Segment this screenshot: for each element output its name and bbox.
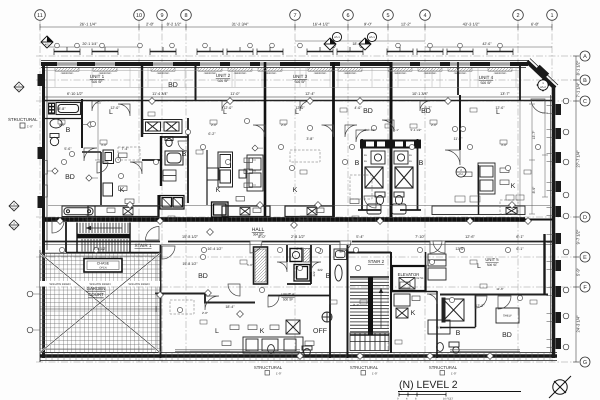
svg-text:+WINDOW+: +WINDOW+	[233, 72, 247, 75]
top exterior wall	[41, 61, 529, 68]
svg-text:UNIT 6: UNIT 6	[281, 292, 295, 297]
svg-text:307: 307	[12, 227, 17, 230]
unit5 bottom counter	[432, 206, 525, 215]
svg-text:W/FLOW DRAIN: W/FLOW DRAIN	[129, 282, 150, 286]
svg-text:E: E	[583, 255, 587, 261]
right grid bubbles	[580, 51, 590, 367]
svg-text:6'-8": 6'-8"	[531, 22, 540, 27]
svg-text:UNIT 2: UNIT 2	[216, 73, 231, 78]
room dimension texts	[58, 106, 524, 309]
svg-text:OFF: OFF	[313, 328, 327, 335]
svg-text:B: B	[583, 78, 587, 84]
scattered tag boxes	[58, 108, 537, 344]
svg-text:W2: W2	[17, 89, 21, 92]
unit2/3 kitchen cluster	[247, 155, 263, 191]
svg-text:6'-2": 6'-2"	[208, 132, 216, 136]
svg-text:OPEN: OPEN	[99, 267, 106, 270]
svg-text:62 SF: 62 SF	[416, 276, 424, 280]
lower room labels	[198, 263, 512, 339]
svg-text:5: 5	[386, 13, 389, 19]
unit1 BD bathtub bottom	[62, 206, 95, 217]
unit2 laundry dark boxes	[160, 196, 184, 210]
svg-text:L: L	[295, 109, 299, 116]
unit3 kitchen boxes	[207, 168, 246, 180]
svg-text:6'-1": 6'-1"	[516, 235, 524, 239]
svg-text:+WINDOW+: +WINDOW+	[98, 72, 112, 75]
left wall window rects	[44, 161, 47, 198]
unit2 bath block	[142, 118, 188, 203]
secondary dimension line top-left	[45, 41, 552, 47]
bottom window sills	[175, 350, 520, 352]
top-right diagonal corner wall	[527, 59, 558, 89]
unit5 toilet + sink	[437, 342, 460, 353]
svg-text:6: 6	[346, 13, 349, 19]
svg-text:9'-0 1/2": 9'-0 1/2"	[365, 128, 376, 132]
hall bottom wall	[45, 241, 553, 243]
svg-text:+WINDOW+: +WINDOW+	[453, 72, 467, 75]
top diamond callouts	[41, 36, 549, 91]
svg-text:1'-0": 1'-0"	[27, 125, 33, 129]
svg-text:STRUCTURAL: STRUCTURAL	[350, 365, 379, 370]
svg-text:G: G	[583, 360, 587, 366]
unit3 diamond tag	[252, 145, 258, 151]
unit2/3 divider wall	[264, 62, 267, 217]
double bath lower vanities	[367, 204, 406, 214]
svg-text:+WINDOW+: +WINDOW+	[156, 72, 170, 75]
unit3 dark appliance cluster	[212, 202, 229, 217]
svg-text:+WINDOW+: +WINDOW+	[493, 72, 507, 75]
svg-text:9'-7 1/2": 9'-7 1/2"	[576, 229, 581, 244]
garden court hatch	[40, 253, 160, 352]
svg-text:307: 307	[12, 208, 17, 211]
double bath enclosure walls	[358, 139, 421, 210]
top grid bubbles	[35, 10, 558, 21]
unit6 hall closet fixtures	[334, 249, 347, 260]
court dimension line	[40, 306, 160, 312]
left exterior wall	[40, 62, 47, 362]
svg-text:STRUCTURAL: STRUCTURAL	[8, 117, 38, 122]
svg-text:B: B	[182, 151, 187, 158]
svg-text:15'-8 1/2": 15'-8 1/2"	[182, 262, 198, 266]
svg-text:STAIR 1: STAIR 1	[134, 243, 151, 248]
elevator lobby fixtures	[394, 294, 410, 318]
svg-text:13'-7": 13'-7"	[532, 130, 536, 139]
svg-text:COURT: COURT	[88, 292, 104, 297]
svg-text:STRUCTURAL: STRUCTURAL	[429, 365, 458, 370]
svg-text:5'-9": 5'-9"	[576, 267, 581, 276]
unit2 laundry wall	[157, 195, 159, 217]
svg-text:13'-7": 13'-7"	[500, 92, 510, 96]
svg-text:7'-4": 7'-4"	[121, 147, 129, 151]
unit5 interior walls	[459, 95, 461, 150]
svg-text:3'-0": 3'-0"	[101, 143, 107, 147]
stair2 landing grid	[350, 333, 389, 351]
svg-text:12'-0": 12'-0"	[295, 106, 305, 110]
svg-text:7: 7	[293, 13, 296, 19]
top strip cell divider lines	[55, 68, 516, 88]
stair 1	[80, 223, 128, 233]
svg-text:K: K	[260, 328, 265, 335]
unit5 wardrobe box	[496, 308, 519, 323]
svg-text:UNIT 5: UNIT 5	[485, 257, 499, 262]
svg-text:K: K	[293, 187, 298, 194]
unit5 L east wall	[519, 62, 521, 101]
svg-text:C: C	[583, 99, 587, 105]
unit3/4 divider wall	[332, 62, 335, 217]
svg-text:11'-2": 11'-2"	[454, 137, 464, 141]
svg-text:7'-10": 7'-10"	[415, 235, 425, 239]
svg-text:20'-1 1/4": 20'-1 1/4"	[82, 42, 98, 46]
unit3 kitchen wall	[206, 150, 208, 205]
svg-text:12'-2": 12'-2"	[475, 304, 485, 308]
svg-text:11'-6": 11'-6"	[496, 287, 503, 291]
unit2 kitchen column	[218, 152, 233, 187]
window tag circles row	[55, 43, 503, 48]
svg-text:L: L	[223, 109, 227, 116]
svg-text:W/FLOW DRAIN: W/FLOW DRAIN	[50, 282, 71, 286]
svg-text:26'-1 1/4": 26'-1 1/4"	[80, 22, 97, 27]
svg-text:B: B	[419, 160, 424, 167]
office symbol circle	[322, 312, 332, 322]
svg-text:3'-4": 3'-4"	[353, 303, 359, 307]
unit5 entry closet cluster	[428, 254, 446, 280]
unit2 vanity tubs	[143, 120, 182, 134]
unit1 bath diamond tag	[87, 122, 93, 128]
stair 2	[350, 279, 368, 332]
svg-text:2'-6": 2'-6"	[59, 123, 65, 127]
svg-text:27'-7 1/4": 27'-7 1/4"	[576, 150, 581, 167]
svg-text:+WINDOW+: +WINDOW+	[393, 72, 407, 75]
svg-text:500 SF: 500 SF	[295, 80, 306, 84]
svg-text:9'-0": 9'-0"	[364, 22, 373, 27]
svg-text:STAIR 2: STAIR 2	[368, 259, 385, 264]
svg-text:8: 8	[184, 13, 187, 19]
sink counters along hall (unit2,3)	[88, 206, 333, 217]
elevator shaft	[392, 266, 426, 291]
svg-text:+WINDOW+: +WINDOW+	[343, 72, 357, 75]
svg-text:+WINDOW+: +WINDOW+	[423, 72, 437, 75]
svg-text:4: 4	[423, 13, 426, 19]
svg-text:2'-8": 2'-8"	[296, 247, 304, 251]
garden court diagonals	[40, 253, 160, 352]
svg-text:UNIT 3: UNIT 3	[293, 74, 308, 79]
svg-text:6'-10 1/2": 6'-10 1/2"	[67, 92, 84, 96]
unit6 washer/dryer stack	[294, 265, 310, 282]
svg-text:5'-6": 5'-6"	[64, 147, 72, 151]
left circle tags	[27, 291, 33, 333]
svg-text:500 SF: 500 SF	[92, 80, 103, 84]
svg-text:10'-1 3/4": 10'-1 3/4"	[412, 92, 429, 96]
svg-text:5'-4": 5'-4"	[356, 235, 364, 239]
svg-text:UNIT 4: UNIT 4	[479, 75, 494, 80]
svg-text:500 SF: 500 SF	[283, 298, 293, 302]
svg-text:42'-6": 42'-6"	[482, 42, 492, 46]
svg-text:K: K	[411, 310, 416, 317]
unit5 bath shower	[443, 299, 464, 321]
unit6 bath interior	[290, 249, 302, 262]
svg-text:11: 11	[37, 13, 43, 19]
svg-text:2: 2	[516, 13, 519, 19]
hall top wall	[45, 217, 525, 222]
svg-text:L: L	[496, 109, 500, 116]
window sill hatch strips	[55, 68, 512, 71]
bottom exterior wall	[40, 353, 557, 361]
svg-text:2'-8": 2'-8"	[146, 22, 155, 27]
svg-text:B: B	[456, 330, 461, 337]
chase box	[84, 259, 122, 273]
svg-text:1'-0": 1'-0"	[372, 372, 378, 376]
unit1 kitchen tags	[119, 153, 127, 191]
svg-text:2'-6": 2'-6"	[211, 123, 217, 127]
svg-text:K: K	[511, 183, 516, 190]
strip wall x=195	[195, 62, 197, 101]
unit1/unit2 divider	[141, 62, 143, 137]
svg-text:1'-0": 1'-0"	[276, 372, 282, 376]
stair2 block west wall	[347, 245, 349, 358]
garden court east wall	[160, 245, 162, 358]
room labels upper band	[65, 82, 516, 194]
svg-text:222: 222	[317, 268, 322, 272]
svg-text:B: B	[355, 160, 360, 167]
stair2/elevator divider	[348, 252, 392, 353]
unit5 kitchen cluster	[478, 163, 495, 194]
svg-text:16'-4 1/2": 16'-4 1/2"	[313, 22, 330, 27]
svg-text:12'-6": 12'-6"	[465, 235, 475, 239]
svg-text:L: L	[109, 109, 113, 116]
north arrow	[549, 376, 571, 398]
unit5 north wall	[440, 294, 548, 296]
svg-text:L: L	[215, 328, 219, 335]
svg-text:A5.1: A5.1	[458, 173, 464, 176]
unit2 bathtub horizontal	[165, 151, 183, 165]
unit6 toilet + sink	[268, 345, 312, 356]
svg-text:W/D: W/D	[436, 326, 443, 330]
double bath showers	[365, 167, 413, 188]
svg-text:9'-1 1/2": 9'-1 1/2"	[411, 128, 422, 132]
vanity counter dark band	[360, 140, 421, 149]
scale bar	[399, 393, 446, 397]
svg-text:BD: BD	[198, 273, 208, 280]
interior dimension line x=532	[529, 104, 535, 214]
svg-text:500 SF: 500 SF	[487, 263, 497, 267]
svg-text:CHASE: CHASE	[97, 262, 110, 266]
svg-text:BD: BD	[502, 332, 512, 339]
unit2 toilet	[165, 137, 173, 147]
svg-text:4'-1": 4'-1"	[393, 128, 399, 132]
window head marks	[54, 51, 513, 53]
svg-text:31'-2 3/4": 31'-2 3/4"	[232, 22, 249, 27]
svg-text:12'-2": 12'-2"	[401, 22, 412, 27]
svg-text:K: K	[216, 187, 221, 194]
extra top dim texts	[82, 42, 492, 46]
unit5 bath walls	[440, 295, 476, 328]
unit1 sink + toilet	[50, 119, 62, 146]
svg-text:SHELF: SHELF	[503, 314, 512, 318]
svg-text:24'-3 1/4": 24'-3 1/4"	[576, 315, 581, 332]
svg-text:12'-4": 12'-4"	[305, 92, 315, 96]
svg-text:GARDEN: GARDEN	[87, 286, 106, 291]
svg-text:BD: BD	[363, 108, 373, 115]
right exterior wall	[551, 85, 554, 358]
svg-text:A5.1: A5.1	[334, 35, 340, 39]
stair2 up arrow	[380, 288, 382, 328]
door arcs	[52, 99, 545, 310]
window labels	[60, 72, 507, 75]
svg-text:11'-0": 11'-0"	[230, 92, 240, 96]
svg-text:L: L	[477, 263, 481, 270]
stair1 up arrow	[86, 227, 122, 229]
svg-text:12'-0": 12'-0"	[223, 106, 233, 110]
unit1 kitchen fridge/oven	[103, 150, 114, 196]
elevator lobby walls	[391, 252, 437, 358]
stair1 door arc	[146, 227, 160, 241]
unit6 kitchen counters	[243, 337, 303, 353]
svg-text:364 SF: 364 SF	[253, 233, 263, 237]
svg-text:11'-4 3/4": 11'-4 3/4"	[152, 92, 168, 96]
svg-text:B: B	[66, 127, 71, 134]
vertical grid lines	[40, 21, 552, 362]
svg-text:3'-0": 3'-0"	[501, 143, 507, 147]
svg-text:8'-1 1/2": 8'-1 1/2"	[576, 60, 581, 75]
door/window tag circles	[59, 118, 540, 312]
right dimension line	[573, 56, 579, 362]
svg-text:A: A	[583, 54, 587, 60]
svg-text:4'-4 1/2": 4'-4 1/2"	[93, 247, 107, 251]
interior wall y=101	[45, 97, 552, 101]
svg-text:1'-0": 1'-0"	[451, 372, 457, 376]
svg-text:9'-2": 9'-2"	[424, 106, 432, 110]
dimension text row y=94	[67, 92, 510, 96]
svg-text:500 SF: 500 SF	[481, 81, 492, 85]
svg-text:A5.2: A5.2	[540, 85, 546, 89]
svg-text:3'-8": 3'-8"	[306, 137, 314, 141]
hall west stub wall	[65, 222, 67, 252]
svg-text:43'-3 1/2": 43'-3 1/2"	[463, 22, 480, 27]
hall dimension row	[182, 235, 524, 239]
svg-text:6'-1": 6'-1"	[516, 247, 524, 251]
svg-text:8'-9": 8'-9"	[532, 186, 536, 194]
svg-text:12'-0": 12'-0"	[110, 106, 120, 110]
svg-text:+WINDOW+: +WINDOW+	[203, 72, 217, 75]
garden court label	[87, 286, 106, 297]
svg-text:10: 10	[136, 13, 142, 19]
big callout circle	[456, 167, 466, 177]
svg-text:+WINDOW+: +WINDOW+	[60, 72, 74, 75]
svg-text:8'-2 1/2": 8'-2 1/2"	[167, 22, 182, 27]
unit6 closet	[254, 247, 268, 284]
unit5 W/D box	[428, 320, 450, 334]
diagonal window block	[536, 65, 550, 78]
strip wall x=458	[457, 62, 459, 95]
svg-text:7'-1 1/4": 7'-1 1/4"	[576, 82, 581, 97]
top dimension line	[40, 24, 552, 30]
left diamond callouts	[9, 82, 24, 230]
svg-text:12'-6": 12'-6"	[455, 247, 465, 251]
unit labels	[90, 73, 494, 85]
lower BD/L stepped wall	[155, 294, 255, 303]
svg-text:9: 9	[160, 13, 163, 19]
unit5 inner dimension string	[542, 113, 548, 197]
svg-text:500 SF: 500 SF	[218, 79, 229, 83]
svg-text:4'-0": 4'-0"	[354, 106, 362, 110]
svg-text:2'-6": 2'-6"	[431, 123, 437, 127]
svg-text:2'-8 1/2": 2'-8 1/2"	[291, 235, 306, 239]
unit1 interior dim string	[95, 103, 101, 160]
kitchen tag boxes	[236, 158, 253, 201]
svg-text:18'-4": 18'-4"	[225, 305, 235, 309]
unit2 vanity boxes	[163, 170, 176, 181]
svg-text:16'-4 1/2": 16'-4 1/2"	[207, 247, 223, 251]
unit1 plumbing chase checker	[48, 103, 55, 115]
svg-text:15'-8 1/2": 15'-8 1/2"	[182, 235, 199, 239]
unit1 kitchen wall	[82, 152, 101, 205]
unit1 BD diamonds	[52, 168, 58, 174]
unit6 walls	[268, 245, 330, 358]
unit1 bath east wall	[81, 99, 83, 148]
horizontal grid lines	[36, 56, 579, 362]
svg-text:+WINDOW+: +WINDOW+	[313, 72, 327, 75]
svg-text:A07: A07	[45, 43, 50, 47]
east entry wall	[543, 234, 545, 295]
svg-text:5'-0": 5'-0"	[247, 263, 253, 267]
right window tag circles	[563, 98, 569, 350]
svg-text:D: D	[583, 215, 587, 221]
svg-text:A5.1: A5.1	[369, 35, 375, 39]
unit5 counter tag boxes	[455, 195, 524, 202]
svg-text:BD: BD	[65, 174, 75, 181]
svg-text:222: 222	[312, 271, 316, 276]
unit1 bathtub	[56, 103, 81, 115]
svg-text:B: B	[326, 273, 331, 280]
svg-text:8'-8": 8'-8"	[58, 107, 66, 111]
svg-text:+WINDOW+: +WINDOW+	[263, 72, 277, 75]
svg-text:1: 1	[550, 13, 553, 19]
counter datum line y=205.5	[48, 205, 550, 207]
unit4/5 central divider wall	[390, 62, 393, 217]
dashed closet outlines	[118, 147, 518, 314]
svg-text:BD: BD	[168, 82, 178, 89]
double bath toilets	[375, 192, 404, 205]
top strip bounding lines	[45, 71, 519, 88]
svg-text:2'-8": 2'-8"	[202, 311, 208, 315]
double bath vanity sinks	[371, 151, 408, 164]
svg-text:(N) LEVEL 2: (N) LEVEL 2	[399, 379, 458, 391]
svg-text:2'-6": 2'-6"	[281, 123, 287, 127]
svg-text:12'-6": 12'-6"	[495, 106, 505, 110]
svg-text:STRUCTURAL: STRUCTURAL	[254, 365, 283, 370]
